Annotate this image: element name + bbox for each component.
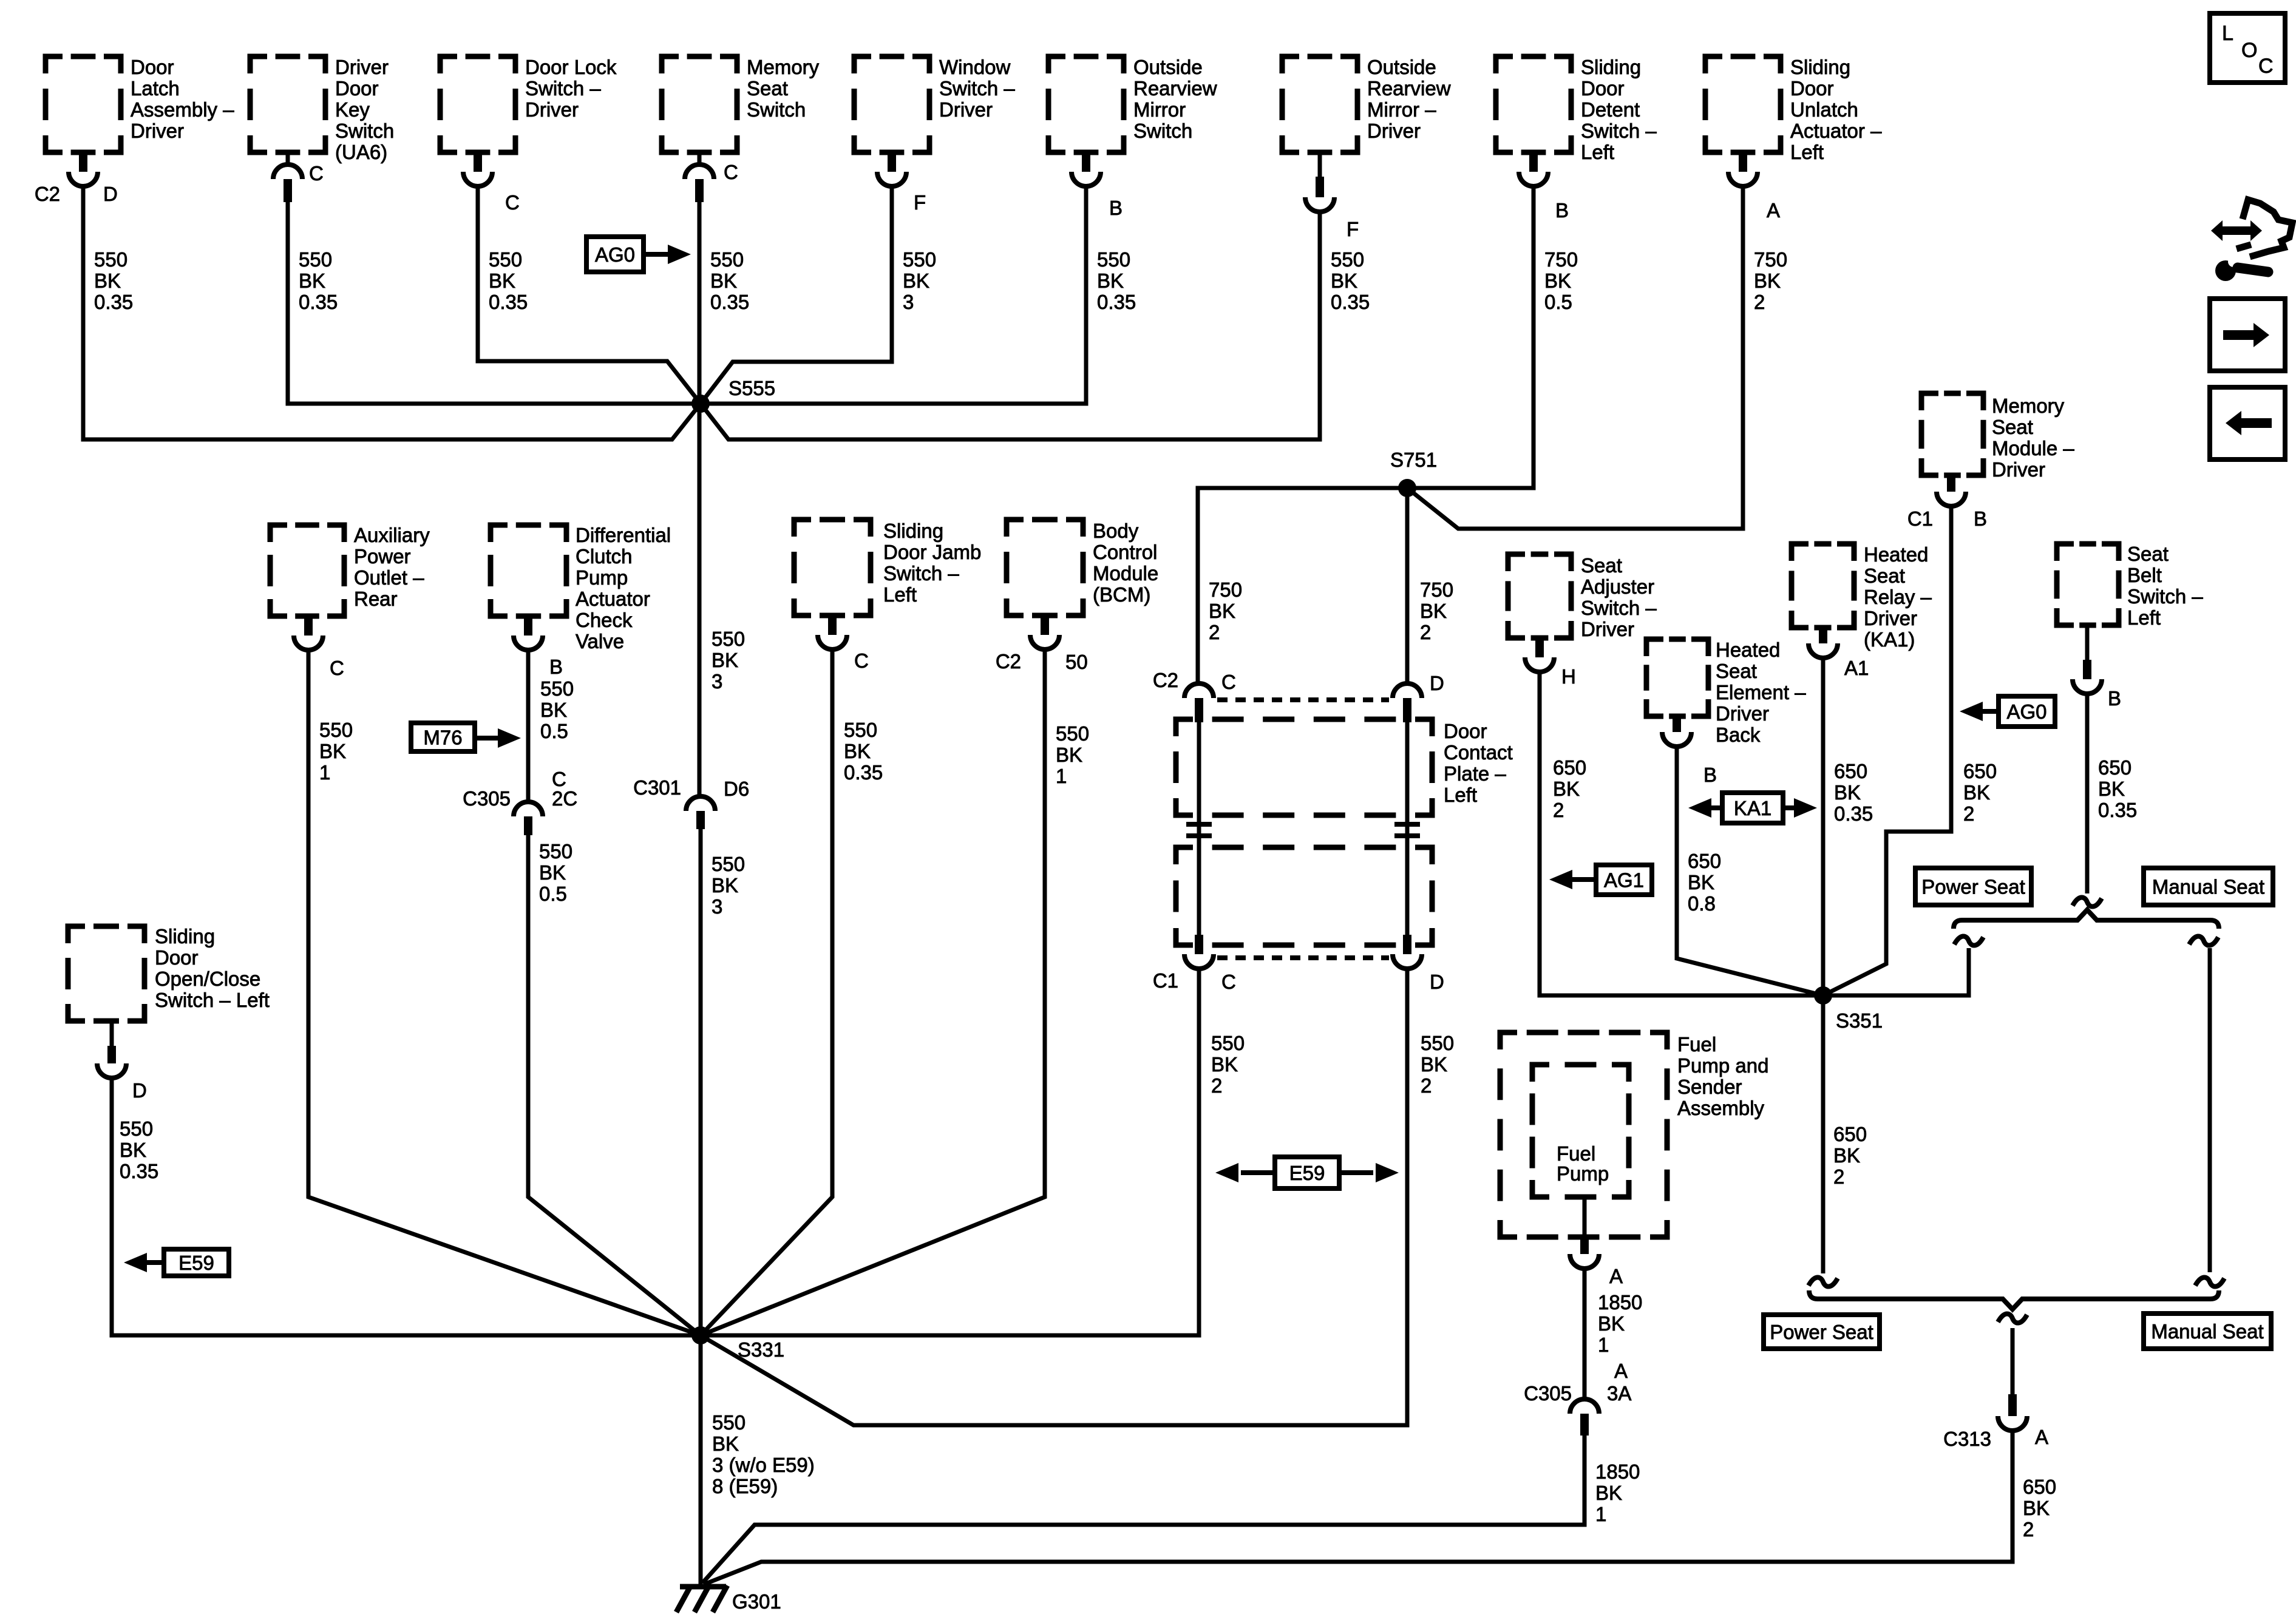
svg-text:Sliding: Sliding bbox=[883, 520, 943, 542]
svg-text:Assembly: Assembly bbox=[1677, 1097, 1765, 1119]
svg-text:550: 550 bbox=[1331, 248, 1364, 271]
wire break above bottom brace left bbox=[1809, 1277, 1838, 1286]
svg-text:D: D bbox=[103, 183, 118, 205]
dotted link bottom of door contact plate bbox=[1217, 955, 1389, 960]
svg-text:Body: Body bbox=[1093, 520, 1139, 542]
svg-text:BK: BK bbox=[1598, 1312, 1625, 1335]
svg-text:Actuator –: Actuator – bbox=[1790, 120, 1882, 142]
svg-text:Sliding: Sliding bbox=[1581, 56, 1641, 78]
svg-text:BK: BK bbox=[1420, 600, 1447, 622]
svg-text:750: 750 bbox=[1209, 578, 1242, 601]
svg-text:BK: BK bbox=[540, 699, 567, 721]
svg-text:C: C bbox=[2258, 55, 2274, 78]
svg-text:Sender: Sender bbox=[1677, 1076, 1742, 1098]
reference E59 with left arrow bbox=[164, 1249, 229, 1276]
svg-text:2: 2 bbox=[1421, 1074, 1432, 1097]
svg-text:2: 2 bbox=[1209, 621, 1220, 643]
splice S555 bbox=[691, 395, 710, 413]
svg-text:C1: C1 bbox=[1153, 969, 1178, 992]
wire 650 BK 2 Memory Seat Module to S351 bbox=[1823, 506, 1951, 995]
svg-text:KA1: KA1 bbox=[1734, 797, 1771, 819]
svg-text:Assembly –: Assembly – bbox=[131, 98, 234, 121]
svg-text:Key: Key bbox=[335, 98, 370, 121]
svg-text:Seat: Seat bbox=[1581, 554, 1622, 577]
svg-text:BK: BK bbox=[120, 1139, 146, 1161]
wire 550 BK 0.5 to C305 bbox=[526, 650, 531, 802]
connector pin D under SD Open/Close Switch bbox=[110, 1021, 114, 1046]
svg-text:C: C bbox=[330, 657, 344, 679]
svg-text:Switch –: Switch – bbox=[1581, 597, 1657, 619]
svg-text:Door: Door bbox=[335, 77, 379, 100]
svg-text:C: C bbox=[724, 161, 738, 183]
svg-text:0.5: 0.5 bbox=[539, 883, 567, 905]
svg-text:BK: BK bbox=[1688, 871, 1714, 893]
connector pin under Sliding Door Detent Switch - Left bbox=[1529, 152, 1538, 172]
svg-text:Power Seat: Power Seat bbox=[1770, 1321, 1873, 1343]
component Heated Seat Element - Driver Back bbox=[1646, 639, 1708, 716]
svg-text:Switch –: Switch – bbox=[883, 562, 959, 585]
svg-text:650: 650 bbox=[1834, 760, 1867, 782]
svg-text:550: 550 bbox=[94, 248, 127, 271]
wire break below top brace right bbox=[2189, 936, 2218, 945]
svg-text:0.35: 0.35 bbox=[299, 291, 338, 313]
wire 650 BK 0.35 / 650 BK 2 relay through S351 to Power Seat break bbox=[1821, 658, 1826, 1273]
svg-text:BK: BK bbox=[710, 269, 737, 292]
svg-text:Driver: Driver bbox=[525, 98, 579, 121]
svg-text:C: C bbox=[854, 649, 869, 672]
bottom brace (Power Seat / Manual Seat) bbox=[1809, 1290, 2219, 1309]
reference AG0 with left arrow bbox=[1999, 696, 2055, 727]
svg-text:1850: 1850 bbox=[1598, 1291, 1642, 1314]
connector C305 (diff clutch wire) bbox=[514, 802, 543, 816]
svg-text:Seat: Seat bbox=[1864, 564, 1905, 587]
svg-text:Auxiliary: Auxiliary bbox=[354, 524, 430, 546]
wire 550 BK 0.35 SD Open/Close Switch to S331 bbox=[112, 1078, 701, 1335]
connector pin C under Aux Power Outlet bbox=[304, 616, 313, 636]
svg-text:Driver: Driver bbox=[131, 120, 184, 142]
connector C301 on Memory Seat Switch wire bbox=[686, 796, 715, 811]
svg-text:Pump: Pump bbox=[1557, 1162, 1609, 1185]
svg-text:AG1: AG1 bbox=[1604, 869, 1644, 892]
svg-text:(BCM): (BCM) bbox=[1093, 583, 1150, 606]
svg-text:Driver: Driver bbox=[939, 98, 993, 121]
component Door Latch Assembly - Driver bbox=[46, 56, 121, 152]
svg-text:3: 3 bbox=[712, 895, 722, 918]
svg-text:0.35: 0.35 bbox=[120, 1160, 158, 1182]
svg-text:Seat: Seat bbox=[1992, 416, 2033, 438]
svg-text:550: 550 bbox=[712, 628, 745, 650]
contact plates D side bbox=[1394, 824, 1420, 836]
svg-text:C301: C301 bbox=[633, 776, 681, 799]
svg-text:C: C bbox=[1221, 671, 1236, 693]
svg-text:550: 550 bbox=[903, 248, 936, 271]
svg-text:Switch –: Switch – bbox=[525, 77, 601, 100]
svg-text:550: 550 bbox=[844, 719, 877, 741]
svg-text:3: 3 bbox=[712, 670, 722, 693]
splice S751 bbox=[1398, 479, 1416, 497]
previous-page arrow box bbox=[2210, 387, 2285, 459]
svg-text:Pump and: Pump and bbox=[1677, 1054, 1768, 1077]
svg-text:BK: BK bbox=[1834, 781, 1861, 804]
svg-text:2: 2 bbox=[1833, 1165, 1844, 1188]
svg-text:BK: BK bbox=[299, 269, 325, 292]
svg-text:Left: Left bbox=[883, 583, 917, 606]
svg-text:Left: Left bbox=[2127, 606, 2161, 629]
svg-text:B: B bbox=[2108, 687, 2121, 710]
svg-text:F: F bbox=[1347, 218, 1359, 240]
wire break above top brace bbox=[2073, 897, 2102, 906]
svg-text:0.5: 0.5 bbox=[1544, 291, 1572, 313]
wire 750 BK 0.5 SD Detent Switch to S751 bbox=[1407, 186, 1533, 488]
wire 550 BK 0.35 Door Key Switch to S555 bbox=[288, 202, 701, 404]
reference E59 with double arrow bbox=[1275, 1157, 1339, 1188]
svg-text:Adjuster: Adjuster bbox=[1581, 575, 1654, 598]
svg-text:B: B bbox=[1109, 197, 1123, 219]
svg-text:Driver: Driver bbox=[1581, 618, 1634, 640]
wire 550 BK 1 Aux Power Outlet to S331 bbox=[308, 650, 701, 1335]
connector pin under Window Switch - Driver bbox=[888, 152, 896, 172]
svg-text:BK: BK bbox=[489, 269, 515, 292]
next-page arrow box bbox=[2210, 299, 2285, 371]
connector pin B under Seat Belt Switch bbox=[2085, 625, 2090, 660]
wire 550 BK 0.35 Door Lock Switch to S555 bbox=[478, 186, 701, 404]
svg-text:3A: 3A bbox=[1607, 1382, 1631, 1405]
svg-text:Seat: Seat bbox=[2127, 543, 2169, 565]
svg-text:Switch: Switch bbox=[1133, 120, 1192, 142]
svg-text:Memory: Memory bbox=[1992, 395, 2065, 417]
svg-text:0.5: 0.5 bbox=[540, 720, 568, 742]
svg-text:Driver: Driver bbox=[1992, 458, 2045, 481]
svg-text:Valve: Valve bbox=[576, 630, 624, 653]
svg-text:B: B bbox=[1974, 507, 1987, 530]
svg-text:AG0: AG0 bbox=[595, 243, 635, 266]
svg-text:Check: Check bbox=[576, 609, 633, 631]
svg-text:0.35: 0.35 bbox=[1834, 802, 1873, 825]
svg-text:Switch: Switch bbox=[747, 98, 806, 121]
component Fuel Pump (inner) bbox=[1532, 1065, 1629, 1197]
connector pin under Outside Rearview Mirror - Driver bbox=[1318, 152, 1322, 177]
svg-text:750: 750 bbox=[1420, 578, 1453, 601]
connector C1 pin C (door contact plate bottom left) bbox=[1195, 935, 1203, 954]
connector pin under Sliding Door Unlatch Actuator - Left bbox=[1739, 152, 1747, 172]
svg-text:Mirror –: Mirror – bbox=[1367, 98, 1436, 121]
svg-text:S555: S555 bbox=[729, 377, 775, 399]
wire 550 BK 3 Window Switch to S555 bbox=[701, 186, 892, 404]
svg-text:0.35: 0.35 bbox=[489, 291, 528, 313]
svg-text:3 (w/o E59): 3 (w/o E59) bbox=[712, 1454, 815, 1476]
svg-text:Outlet –: Outlet – bbox=[354, 566, 424, 589]
svg-text:650: 650 bbox=[2098, 756, 2131, 779]
svg-text:Relay –: Relay – bbox=[1864, 586, 1932, 608]
svg-text:550: 550 bbox=[1211, 1032, 1245, 1054]
svg-text:Element –: Element – bbox=[1716, 681, 1806, 703]
svg-text:BK: BK bbox=[712, 649, 738, 671]
svg-text:B: B bbox=[549, 656, 563, 678]
svg-text:Driver: Driver bbox=[335, 56, 389, 78]
svg-text:Door: Door bbox=[1790, 77, 1834, 100]
svg-text:S751: S751 bbox=[1390, 449, 1437, 471]
svg-text:Belt: Belt bbox=[2127, 564, 2162, 586]
svg-text:L: L bbox=[2222, 22, 2233, 45]
component Outside Rearview Mirror Switch bbox=[1048, 56, 1124, 152]
connector C2 pin C (door contact plate top left) bbox=[1184, 683, 1214, 698]
svg-text:Door Jamb: Door Jamb bbox=[883, 541, 981, 563]
svg-text:C313: C313 bbox=[1943, 1428, 1991, 1450]
wire through door contact plate (C side) bbox=[1197, 722, 1201, 935]
svg-text:A: A bbox=[1614, 1360, 1628, 1382]
label box Manual Seat (top) bbox=[2144, 868, 2273, 905]
svg-text:Left: Left bbox=[1581, 141, 1614, 163]
svg-text:H: H bbox=[1561, 665, 1576, 688]
svg-text:BK: BK bbox=[1211, 1053, 1238, 1076]
wire 750 BK 2 S751 to Door Contact Plate D bbox=[1405, 488, 1410, 683]
svg-text:BK: BK bbox=[903, 269, 929, 292]
svg-text:Left: Left bbox=[1790, 141, 1824, 163]
wire through door contact plate (D side) bbox=[1405, 722, 1410, 935]
svg-text:BK: BK bbox=[1544, 269, 1571, 292]
svg-text:Outside: Outside bbox=[1367, 56, 1436, 78]
svg-text:Open/Close: Open/Close bbox=[155, 968, 260, 990]
connector pin under Driver Door Key Switch (UA6) bbox=[286, 152, 290, 164]
wire 650 BK 0.35 Seat Belt Switch to break bbox=[2085, 694, 2090, 893]
wire break below top brace left bbox=[1954, 936, 1983, 945]
svg-text:BK: BK bbox=[2023, 1497, 2050, 1519]
svg-text:E59: E59 bbox=[178, 1252, 214, 1274]
reference M76 with arrow bbox=[411, 723, 475, 751]
svg-text:Fuel: Fuel bbox=[1677, 1033, 1716, 1056]
svg-text:F: F bbox=[914, 191, 926, 214]
svg-text:550: 550 bbox=[489, 248, 522, 271]
svg-text:0.35: 0.35 bbox=[710, 291, 749, 313]
svg-text:Manual Seat: Manual Seat bbox=[2152, 876, 2264, 898]
svg-text:Outside: Outside bbox=[1133, 56, 1203, 78]
svg-text:Switch: Switch bbox=[335, 120, 394, 142]
svg-text:S331: S331 bbox=[738, 1338, 784, 1361]
svg-text:1: 1 bbox=[1056, 765, 1067, 787]
connector pin A under fuel pump bbox=[1583, 1197, 1587, 1235]
svg-text:C2: C2 bbox=[1153, 669, 1178, 691]
wire 650 BK 0.8 Heated Seat Element to S351 bbox=[1677, 747, 1823, 995]
svg-text:2: 2 bbox=[2023, 1518, 2034, 1541]
connector pin under Memory Seat Switch bbox=[698, 152, 702, 164]
svg-text:Switch – Left: Switch – Left bbox=[155, 989, 270, 1011]
label box Manual Seat (bottom) bbox=[2144, 1314, 2271, 1349]
svg-text:C305: C305 bbox=[1524, 1382, 1572, 1405]
component Seat Adjuster Switch - Driver bbox=[1508, 554, 1571, 638]
svg-text:Manual Seat: Manual Seat bbox=[2151, 1320, 2263, 1343]
component Heated Seat Relay - Driver (KA1) bbox=[1792, 544, 1854, 628]
svg-text:2: 2 bbox=[1963, 802, 1974, 825]
svg-text:D6: D6 bbox=[724, 778, 749, 800]
svg-text:Back: Back bbox=[1716, 724, 1761, 746]
svg-text:Power: Power bbox=[354, 545, 411, 568]
connector C313 pin A bbox=[2008, 1394, 2017, 1416]
component Auxiliary Power Outlet - Rear bbox=[270, 525, 344, 616]
component Differential Clutch Pump Actuator Check Valve bbox=[491, 525, 566, 616]
connector pin B of C1 under Memory Seat Module bbox=[1947, 475, 1955, 492]
svg-text:2C: 2C bbox=[552, 787, 577, 810]
component Memory Seat Module - Driver bbox=[1921, 393, 1983, 475]
svg-text:Rearview: Rearview bbox=[1133, 77, 1217, 100]
wire 550 BK 0.35 Jamb Switch to S331 bbox=[701, 649, 832, 1335]
svg-text:2: 2 bbox=[1754, 291, 1765, 313]
top brace (Power Seat / Manual Seat) bbox=[1954, 910, 2219, 929]
label box Power Seat (bottom) bbox=[1764, 1315, 1880, 1349]
wire 1850 BK 1 fuel pump to C305 bbox=[1583, 1269, 1587, 1399]
svg-text:Latch: Latch bbox=[131, 77, 180, 100]
wire 650 BK 2 Seat Adjuster Switch to S351 bbox=[1540, 672, 1823, 995]
svg-text:8 (E59): 8 (E59) bbox=[712, 1475, 778, 1497]
svg-text:550: 550 bbox=[712, 1411, 746, 1434]
wire 550 BK 0.35 Door Latch to S555 bbox=[83, 186, 701, 439]
svg-text:Switch –: Switch – bbox=[939, 77, 1015, 100]
svg-text:550: 550 bbox=[299, 248, 332, 271]
svg-text:C2: C2 bbox=[996, 650, 1021, 673]
svg-text:A: A bbox=[2035, 1426, 2048, 1448]
svg-text:Rearview: Rearview bbox=[1367, 77, 1451, 100]
svg-text:Door: Door bbox=[1581, 77, 1625, 100]
svg-text:Rear: Rear bbox=[354, 588, 398, 610]
svg-text:Door: Door bbox=[155, 946, 199, 969]
svg-text:D: D bbox=[1430, 672, 1444, 694]
wire 550 BK 0.35 ORV Mirror Switch to S555 bbox=[701, 186, 1086, 404]
svg-text:1: 1 bbox=[1598, 1334, 1609, 1356]
ground G301 bbox=[680, 1584, 726, 1590]
svg-text:550: 550 bbox=[712, 853, 745, 875]
svg-text:Clutch: Clutch bbox=[576, 545, 633, 568]
svg-text:Contact: Contact bbox=[1444, 741, 1513, 764]
svg-text:0.8: 0.8 bbox=[1688, 892, 1716, 915]
connector pin under Outside Rearview Mirror Switch bbox=[1082, 152, 1090, 172]
connector pin B under Heated Seat Element bbox=[1673, 716, 1681, 732]
connector pin C under SD Jamb Switch bbox=[828, 615, 837, 635]
svg-text:550: 550 bbox=[540, 677, 574, 700]
svg-text:A: A bbox=[1767, 199, 1780, 222]
svg-text:C: C bbox=[1221, 971, 1236, 993]
svg-text:S351: S351 bbox=[1836, 1009, 1883, 1032]
wire S351 to Power Seat brace bbox=[1823, 948, 1969, 995]
svg-text:C2: C2 bbox=[35, 183, 60, 205]
svg-text:(KA1): (KA1) bbox=[1864, 628, 1915, 651]
svg-text:550: 550 bbox=[120, 1117, 153, 1140]
svg-text:Detent: Detent bbox=[1581, 98, 1640, 121]
svg-text:Heated: Heated bbox=[1864, 543, 1928, 566]
svg-text:M76: M76 bbox=[423, 727, 462, 749]
svg-text:2: 2 bbox=[1211, 1074, 1222, 1097]
svg-text:BK: BK bbox=[1056, 744, 1082, 766]
svg-text:Control: Control bbox=[1093, 541, 1157, 563]
reference AG0 with arrow to Memory Seat Switch wire bbox=[586, 237, 644, 272]
wire 550 BK 1 BCM to S331 bbox=[701, 649, 1045, 1335]
svg-text:BK: BK bbox=[712, 1432, 739, 1455]
svg-text:2: 2 bbox=[1420, 621, 1431, 643]
svg-text:Switch –: Switch – bbox=[1581, 120, 1657, 142]
svg-text:Mirror: Mirror bbox=[1133, 98, 1186, 121]
svg-text:2: 2 bbox=[1553, 799, 1564, 821]
wire 550 BK 2 contact plate C to S331 bbox=[701, 969, 1199, 1335]
svg-text:G301: G301 bbox=[732, 1590, 781, 1613]
wire break below bottom brace bbox=[1998, 1314, 2027, 1323]
svg-text:Seat: Seat bbox=[747, 77, 788, 100]
svg-text:BK: BK bbox=[1553, 778, 1580, 800]
svg-text:C: C bbox=[505, 191, 520, 214]
svg-text:Sliding: Sliding bbox=[1790, 56, 1850, 78]
svg-text:1850: 1850 bbox=[1595, 1460, 1640, 1483]
svg-text:Switch –: Switch – bbox=[2127, 585, 2203, 608]
svg-text:AG0: AG0 bbox=[2006, 700, 2046, 723]
svg-text:BK: BK bbox=[1595, 1482, 1622, 1504]
component Driver Door Key Switch (UA6) bbox=[250, 56, 325, 152]
svg-text:1: 1 bbox=[1595, 1503, 1606, 1525]
svg-text:550: 550 bbox=[1056, 722, 1089, 745]
svg-text:B: B bbox=[1703, 764, 1717, 786]
svg-text:BK: BK bbox=[94, 269, 121, 292]
svg-text:Memory: Memory bbox=[747, 56, 820, 78]
svg-text:650: 650 bbox=[1688, 850, 1721, 872]
svg-text:A: A bbox=[1609, 1265, 1623, 1287]
wire 750 BK 2 S751 to Door Contact Plate C bbox=[1198, 488, 1407, 683]
connector C2 pin D (door contact plate top right) bbox=[1393, 683, 1422, 698]
connector pin under Door Lock Switch - Driver bbox=[474, 152, 482, 172]
connector C305 (fuel pump wire) bbox=[1570, 1399, 1599, 1414]
svg-text:BK: BK bbox=[1331, 269, 1357, 292]
connector pin under Door Latch Assembly - Driver bbox=[79, 152, 87, 172]
svg-text:750: 750 bbox=[1754, 248, 1787, 271]
component Door Lock Switch - Driver bbox=[440, 56, 515, 152]
connector C1 pin D (door contact plate bottom right) bbox=[1403, 935, 1411, 954]
connector pin A1 under Heated Seat Relay bbox=[1819, 628, 1827, 643]
label box Power Seat (top) bbox=[1915, 868, 2031, 905]
door contact plate upper dashed box bbox=[1176, 719, 1432, 815]
svg-text:BK: BK bbox=[844, 740, 871, 762]
wire 550 BK 3 C301 to S331 bbox=[699, 829, 703, 1335]
svg-text:650: 650 bbox=[1963, 760, 1997, 782]
svg-text:0.35: 0.35 bbox=[844, 761, 883, 784]
svg-text:Door: Door bbox=[131, 56, 174, 78]
svg-text:550: 550 bbox=[319, 719, 353, 741]
svg-text:650: 650 bbox=[1833, 1123, 1867, 1145]
component Sliding Door Open/Close Switch - Left bbox=[68, 926, 144, 1021]
hand/wrench icon bbox=[2243, 200, 2292, 257]
svg-text:E59: E59 bbox=[1289, 1162, 1325, 1184]
svg-text:BK: BK bbox=[319, 740, 346, 762]
component Outside Rearview Mirror - Driver bbox=[1282, 56, 1357, 152]
component Fuel Pump and Sender Assembly bbox=[1500, 1032, 1667, 1237]
svg-text:BK: BK bbox=[2098, 778, 2125, 800]
svg-text:550: 550 bbox=[539, 840, 572, 863]
svg-text:D: D bbox=[132, 1079, 147, 1102]
wire 550 BK 2 contact plate D to S331 bbox=[701, 969, 1407, 1425]
svg-text:Left: Left bbox=[1444, 784, 1477, 806]
svg-text:0.35: 0.35 bbox=[1331, 291, 1370, 313]
svg-text:750: 750 bbox=[1544, 248, 1578, 271]
connector pin under BCM bbox=[1041, 615, 1049, 635]
wire 650 BK 2 C313 to G301 bbox=[704, 1431, 2012, 1584]
svg-text:B: B bbox=[1555, 199, 1569, 222]
component Seat Belt Switch - Left bbox=[2057, 544, 2119, 625]
wire to C313 bbox=[2011, 1328, 2015, 1394]
svg-text:Module –: Module – bbox=[1992, 437, 2074, 459]
connector pin B under Diff Clutch Pump Valve bbox=[524, 616, 532, 636]
connector pin H under Seat Adjuster Switch bbox=[1535, 638, 1544, 657]
svg-text:C305: C305 bbox=[463, 787, 511, 810]
svg-text:BK: BK bbox=[1097, 269, 1124, 292]
svg-text:Seat: Seat bbox=[1716, 660, 1757, 682]
dotted link top of door contact plate bbox=[1217, 697, 1389, 702]
splice S351 bbox=[1814, 986, 1832, 1005]
component Sliding Door Jamb Switch - Left bbox=[794, 520, 871, 615]
svg-text:Differential: Differential bbox=[576, 524, 671, 546]
